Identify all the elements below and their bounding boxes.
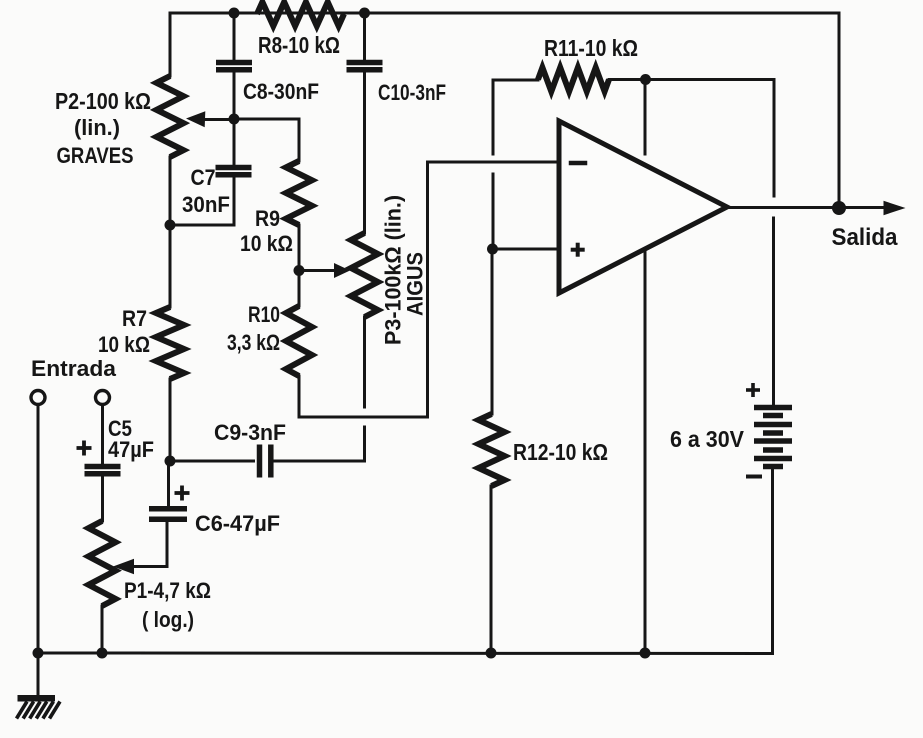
svg-text:R11-10 kΩ: R11-10 kΩ — [544, 35, 638, 61]
wire battery bottom lead — [771, 469, 774, 654]
input terminal right — [96, 391, 110, 405]
svg-text:C6-47µF: C6-47µF — [195, 511, 280, 536]
node ground left terminal — [33, 648, 44, 659]
svg-text:R12-10 kΩ: R12-10 kΩ — [513, 439, 608, 465]
capacitor C8 — [216, 63, 252, 70]
label R9 — [240, 206, 293, 256]
svg-text:C8-30nF: C8-30nF — [243, 79, 319, 104]
wire C10 to P3 top — [363, 73, 366, 234]
wire R10 top lead — [298, 271, 301, 307]
wire right terminal to C5 — [101, 405, 104, 465]
wire P2 bottom lead — [169, 157, 172, 307]
battery minus sign — [748, 475, 760, 479]
wire node to C9 left plate — [170, 460, 254, 463]
wire C8 upper lead — [233, 13, 236, 60]
wire battery top lead below hop — [772, 218, 775, 405]
label P1 — [124, 578, 211, 632]
label R10 — [227, 302, 280, 355]
wire plus input — [493, 248, 559, 251]
resistor R11 — [538, 68, 609, 92]
plus sign C5 — [77, 446, 92, 450]
plus sign C6 — [175, 491, 190, 495]
svg-text:R10: R10 — [248, 302, 280, 327]
wire ground rail — [38, 652, 773, 656]
node P2/C7 bottom junction — [165, 220, 176, 231]
svg-text:C9-3nF: C9-3nF — [214, 420, 286, 445]
svg-text:10 kΩ: 10 kΩ — [240, 231, 293, 256]
wire P2 top lead — [169, 13, 172, 76]
resistor R10 — [286, 306, 312, 376]
potentiometer P2 — [157, 76, 184, 157]
wire node to C6 — [167, 461, 170, 506]
svg-text:(lin.): (lin.) — [74, 115, 120, 140]
capacitor C10 — [347, 63, 383, 70]
svg-text:( log.): ( log.) — [142, 607, 194, 632]
node junction top-right of R8 — [359, 8, 370, 19]
wire opamp V- lead to ground — [644, 249, 647, 653]
node R11 / opamp V+ — [640, 74, 651, 85]
op-amp U1 — [559, 121, 727, 293]
svg-text:GRAVES: GRAVES — [57, 143, 134, 168]
wire P3 lead below hop to C9 — [274, 427, 365, 461]
ground symbol — [17, 698, 61, 718]
node C5/R7/C9/C6 junction — [165, 456, 176, 467]
wire C8 lower lead — [233, 73, 236, 120]
wire minus input — [428, 161, 560, 164]
wire C7 upper lead — [233, 119, 236, 165]
wire output — [727, 206, 888, 209]
potentiometer P3 — [351, 233, 378, 317]
svg-text:C10-3nF: C10-3nF — [378, 80, 446, 105]
P2 wiper arrow — [186, 111, 234, 127]
svg-text:P2-100 kΩ: P2-100 kΩ — [55, 88, 151, 114]
potentiometer P1 — [89, 521, 116, 606]
wire R10 to minus-input column — [299, 162, 428, 417]
wire R11 rail: left corner to bias divider — [493, 80, 538, 154]
wire R9 bottom lead — [298, 225, 301, 271]
wire R12 bottom lead — [490, 486, 493, 653]
svg-text:30nF: 30nF — [182, 192, 230, 217]
input terminal left — [31, 391, 45, 405]
wire R7 bottom lead — [169, 379, 172, 461]
capacitor C7 — [216, 168, 252, 175]
svg-text:6 a 30V: 6 a 30V — [670, 426, 745, 452]
wire C5 to P1 — [101, 477, 104, 522]
svg-text:R7: R7 — [122, 306, 147, 331]
resistor R12 — [479, 414, 505, 486]
wire top feedback rail — [170, 13, 839, 202]
label R7 — [98, 306, 150, 357]
capacitor C9 — [260, 445, 271, 478]
resistor R8 — [257, 2, 344, 26]
P1 wiper arrow — [113, 521, 167, 574]
capacitor C6 — [149, 509, 187, 519]
svg-text:3,3 kΩ: 3,3 kΩ — [227, 330, 280, 355]
node ground opamp V- — [640, 648, 651, 659]
svg-text:47µF: 47µF — [108, 437, 154, 462]
wire C10 upper lead — [363, 13, 366, 60]
wire battery top lead (hops over output wire) — [773, 80, 776, 197]
wire P3 bottom lead (hops over R10 wire) — [363, 317, 366, 407]
op-amp minus sign — [571, 161, 585, 166]
label C7 — [182, 165, 230, 217]
wire bias column below hop to plus input — [492, 174, 495, 249]
label C5 — [108, 416, 154, 462]
output arrowhead — [884, 201, 906, 215]
wire left terminal to ground rail — [37, 405, 40, 654]
wire wiper node to R9 top — [234, 119, 299, 161]
svg-text:R8-10 kΩ: R8-10 kΩ — [258, 32, 340, 58]
node ground P1 — [97, 648, 108, 659]
plus sign battery — [746, 388, 760, 392]
label P2 — [55, 88, 151, 168]
resistor R7 — [156, 307, 184, 379]
svg-text:P1-4,7 kΩ: P1-4,7 kΩ — [124, 578, 211, 603]
wire P1 bottom lead — [101, 606, 104, 653]
wire R11 to battery corner — [609, 78, 774, 81]
svg-text:Salida: Salida — [832, 224, 898, 251]
svg-text:C7: C7 — [191, 165, 216, 190]
capacitor C5 — [85, 467, 121, 474]
wire R12 top lead — [491, 249, 494, 414]
node P2 wiper / C8 / C7 — [229, 114, 240, 125]
node plus input / R12 — [487, 244, 498, 255]
svg-text:R9: R9 — [255, 206, 280, 231]
P3 wiper arrow — [299, 263, 350, 278]
wire opamp V+ lead — [644, 80, 647, 155]
svg-text:10 kΩ: 10 kΩ — [98, 332, 150, 357]
svg-text:AIGUS: AIGUS — [403, 252, 428, 316]
svg-text:Entrada: Entrada — [31, 356, 117, 381]
node output junction — [832, 201, 846, 215]
wire ground stub — [37, 653, 40, 696]
node R9/R10 junction — [294, 265, 305, 276]
resistor R9 — [286, 161, 312, 225]
node ground R12 — [486, 648, 497, 659]
wire C7 lower lead — [233, 177, 236, 225]
wire R7 top lead — [169, 225, 172, 307]
wire C7 bottom to P2 bottom — [170, 224, 234, 227]
op-amp plus sign — [571, 248, 585, 252]
battery B1 — [754, 408, 792, 467]
node junction top-left of R8 — [229, 8, 240, 19]
